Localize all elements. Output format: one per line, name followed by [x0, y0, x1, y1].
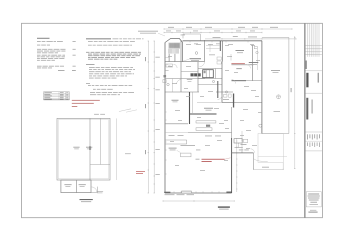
nook text specks — [239, 149, 249, 152]
great room right wall — [232, 107, 238, 193]
garage roof overhang line — [116, 118, 118, 180]
foyer wall — [165, 61, 205, 63]
stair hall wall — [180, 40, 182, 92]
sheet number text — [308, 210, 317, 213]
bottom dimension texts — [165, 193, 195, 196]
laundry dark unit — [191, 73, 201, 76]
left margin note — [138, 31, 165, 36]
top exterior wall — [183, 41, 262, 43]
foyer right wall — [204, 40, 206, 62]
garage room label right — [86, 147, 92, 149]
garage inner wall line — [58, 120, 109, 179]
garage right dimension text — [125, 152, 131, 155]
hall dark wall segment — [217, 81, 219, 98]
garage annex divider — [75, 180, 77, 193]
garage door note text — [97, 191, 104, 193]
right porch outline — [262, 38, 289, 134]
stair lower rails — [165, 54, 176, 62]
left notes heading — [37, 37, 50, 40]
interior dimension specks — [168, 44, 262, 171]
entry closet shelves — [206, 44, 220, 55]
divider line — [306, 131, 322, 133]
right outer dimension line — [291, 36, 296, 169]
pencil scribble mark — [119, 109, 137, 112]
door tag circle nook — [259, 124, 262, 127]
kitchen counter top — [196, 121, 216, 123]
left dimension texts — [145, 57, 160, 175]
upper bedroom label — [236, 50, 245, 53]
left closet box — [166, 64, 173, 67]
garage annex label left — [64, 184, 71, 186]
wing bottom dimension line — [254, 167, 284, 170]
stair kitchen dark wall — [190, 92, 193, 124]
garage door symbol — [91, 187, 98, 194]
bottom exterior wall — [165, 191, 232, 193]
sheet title sub vertical text — [318, 73, 319, 83]
red annotation left margin — [136, 171, 145, 174]
pantry shelf boxes — [217, 57, 221, 64]
dining label — [241, 143, 247, 146]
drawn-by table vertical texts — [306, 134, 322, 147]
red revision note left — [72, 100, 100, 107]
stair turret outline — [165, 38, 182, 61]
kitchen wall — [221, 62, 223, 103]
door swing arcs — [200, 62, 255, 153]
nook leader curve — [253, 159, 268, 162]
kitchen island mark — [206, 125, 210, 127]
left notes paragraph A — [37, 49, 76, 53]
porch lower specks — [274, 110, 281, 113]
right notes misc line — [86, 83, 132, 86]
nook walls — [232, 143, 284, 170]
front rooms divider wall — [165, 91, 233, 93]
top dimension line outer — [164, 28, 292, 29]
revision table verticals — [307, 24, 319, 57]
garage interior wall 2 — [99, 118, 101, 164]
right notes subline — [88, 40, 93, 43]
right notes dimension note — [90, 92, 134, 95]
sheet title vertical text FLOOR PLANS — [306, 73, 308, 88]
garage room label left — [73, 147, 79, 149]
garage top dimension text — [94, 113, 105, 116]
kitchen faint wall — [197, 102, 233, 104]
bedroom walls — [231, 45, 262, 81]
divider line — [306, 92, 322, 94]
study label — [172, 100, 179, 102]
bedroom label — [236, 67, 242, 70]
area schedule table — [44, 92, 70, 100]
porch label — [271, 70, 280, 73]
firm address block box — [306, 192, 321, 207]
right notes extra line — [93, 88, 96, 91]
garage annex label right — [79, 184, 86, 186]
great room specks — [196, 149, 200, 152]
central lower wall — [198, 84, 222, 86]
door tag circle kitchen — [225, 91, 227, 93]
project name sub vertical text — [312, 100, 313, 114]
hall lower wall — [222, 94, 262, 108]
bath label specks — [187, 79, 193, 81]
red revised wall — [231, 62, 245, 65]
left exterior wall — [165, 42, 167, 193]
bath door arc — [177, 80, 181, 84]
kitchen counter bottom — [196, 128, 212, 131]
great room note line — [181, 144, 196, 147]
great room beam lines — [165, 140, 187, 144]
door tag circle hall — [212, 80, 214, 82]
right notes dense paragraph — [86, 52, 141, 60]
lower patio outline — [258, 134, 287, 163]
garage annex walls — [61, 180, 91, 193]
wing dim vertical — [241, 131, 242, 152]
right bath fixtures — [223, 94, 231, 100]
foyer label — [183, 58, 202, 61]
garage door jamb mark — [89, 146, 90, 150]
bedroom label — [249, 62, 258, 65]
page border frame — [22, 23, 323, 217]
left dimension line inner — [154, 41, 155, 193]
central shower box — [203, 70, 214, 78]
revision label vertical text — [306, 61, 307, 70]
kitchen label — [204, 108, 213, 111]
left notes line with area value — [37, 40, 76, 43]
pantry wall — [231, 64, 253, 66]
garage interior wall 1 — [89, 118, 91, 180]
kitchen appliance marks — [234, 139, 248, 143]
divider line — [306, 70, 322, 72]
porch fan symbol — [277, 95, 281, 99]
left notes paragraph B — [37, 55, 76, 61]
left notes line — [37, 44, 40, 47]
firm address text lines — [308, 194, 320, 205]
left hall walls — [165, 71, 205, 92]
study lower wall — [165, 123, 188, 125]
garage interior horizontal wall — [90, 164, 110, 166]
great room note box — [181, 153, 192, 157]
divider line — [306, 150, 322, 152]
kitchen dark cross wall — [190, 113, 217, 115]
right notes heading — [86, 37, 144, 40]
stair treads lower — [168, 49, 178, 54]
first floor plan title — [218, 206, 230, 209]
right notes floors heading — [86, 63, 95, 66]
entry closet dark wall — [219, 41, 221, 51]
bottom wall corner blocks — [164, 192, 231, 194]
kitchen text row — [169, 135, 222, 136]
left dimension line outer — [148, 41, 149, 193]
project name vertical text — [306, 98, 308, 120]
top dimension line inner — [164, 32, 262, 33]
revision table rows — [306, 46, 322, 55]
door tag circle foyer — [195, 52, 198, 55]
bottom dimension line — [163, 200, 234, 201]
garage outer walls — [57, 118, 110, 180]
top dimension texts — [166, 27, 278, 31]
right bath fixtures small — [254, 46, 258, 53]
toilet fixtures — [163, 75, 169, 86]
stair treads upper — [169, 43, 180, 49]
fireplace — [182, 191, 192, 193]
right exterior wall — [261, 41, 263, 134]
great room label — [169, 148, 181, 153]
left notes total row — [58, 69, 76, 72]
mid hall cross wall — [181, 71, 198, 73]
central bathroom walls — [198, 69, 222, 79]
upper kitchen wall segment — [221, 41, 223, 62]
right upper dimension line — [205, 36, 296, 39]
right notes bullet list — [89, 67, 135, 78]
right notes indented line — [88, 44, 92, 47]
entry porch outline — [183, 34, 200, 41]
red annotation center — [196, 158, 231, 162]
mid hall wall — [197, 62, 199, 92]
title block left bar — [304, 23, 305, 217]
left notes paragraph C — [37, 66, 76, 68]
closet door arc — [174, 64, 178, 68]
kitchen bar wall — [165, 132, 232, 134]
turret note text — [181, 34, 186, 37]
garage plan title — [80, 199, 93, 202]
